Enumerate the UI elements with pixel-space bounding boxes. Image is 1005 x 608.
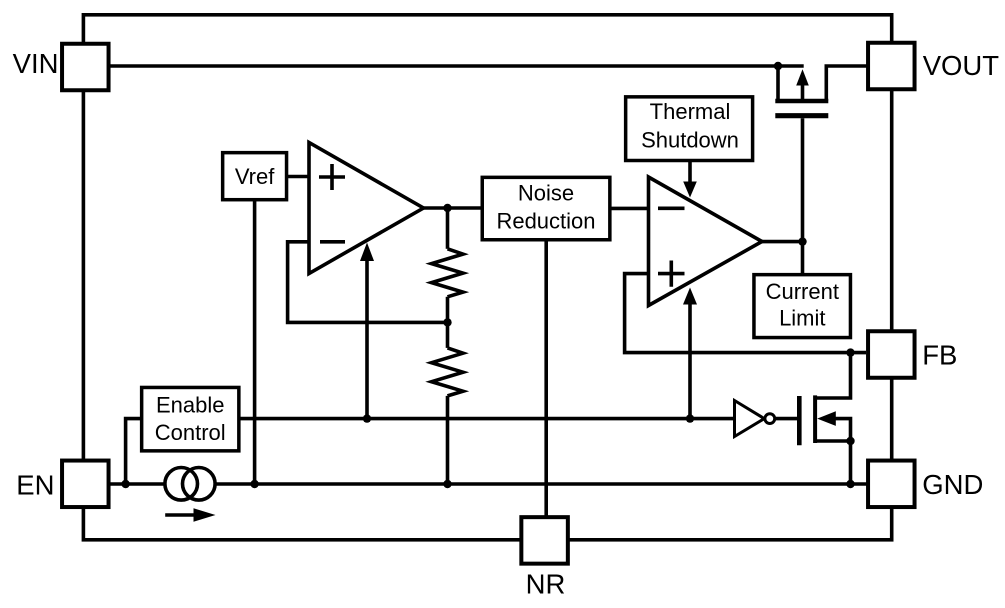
svg-text:Current: Current xyxy=(766,279,839,304)
svg-text:VIN: VIN xyxy=(13,48,59,79)
svg-text:Control: Control xyxy=(155,420,226,445)
svg-text:Noise: Noise xyxy=(518,180,574,205)
svg-text:NR: NR xyxy=(526,568,566,599)
svg-text:Shutdown: Shutdown xyxy=(641,128,739,153)
svg-text:GND: GND xyxy=(922,469,983,500)
svg-text:Reduction: Reduction xyxy=(496,209,595,234)
svg-text:Limit: Limit xyxy=(779,306,825,331)
svg-text:Thermal: Thermal xyxy=(650,99,731,124)
svg-text:FB: FB xyxy=(922,339,957,370)
svg-text:Vref: Vref xyxy=(235,164,275,189)
svg-text:Enable: Enable xyxy=(156,392,225,417)
svg-text:VOUT: VOUT xyxy=(923,50,1000,81)
svg-text:EN: EN xyxy=(16,469,54,500)
